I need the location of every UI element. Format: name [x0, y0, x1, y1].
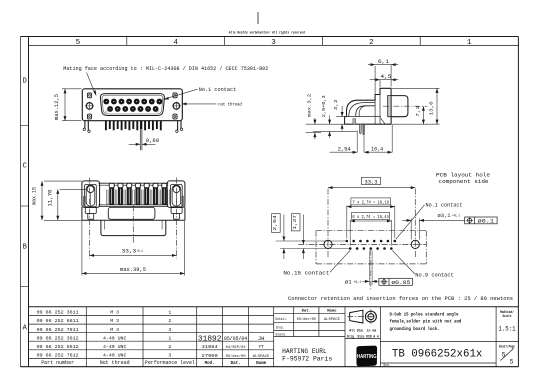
- board lock legs left: [83, 121, 90, 133]
- svg-text:1: 1: [467, 39, 472, 47]
- svg-text:M 3: M 3: [110, 318, 119, 324]
- svg-text:4,5: 4,5: [380, 74, 391, 80]
- company address: [282, 348, 332, 363]
- svg-text:5: 5: [502, 352, 506, 359]
- dimension 11,70: [48, 189, 87, 220]
- dimension units note: [347, 329, 380, 340]
- svg-text:No.1 contact: No.1 contact: [426, 203, 463, 209]
- svg-text:ALSPACE: ALSPACE: [253, 355, 271, 359]
- insulator base (top view): [108, 207, 155, 219]
- D-shell seen from top: [101, 220, 166, 235]
- dimension 1,27 (PCB, boxed): [291, 214, 303, 259]
- contacts top row 1-8: [103, 99, 162, 105]
- dimension max. 15: [32, 181, 82, 220]
- dimension 3,2 (foot height): [333, 99, 342, 131]
- solder pins (side view): [359, 124, 364, 134]
- svg-text:2,54: 2,54: [272, 215, 278, 231]
- dimension 7,3: [415, 106, 423, 125]
- svg-text:M 3: M 3: [110, 310, 119, 316]
- svg-text:7 x 2,74 = 19,18: 7 x 2,74 = 19,18: [353, 199, 390, 205]
- svg-text:Performance level: Performance level: [145, 360, 195, 366]
- svg-text:3,2: 3,2: [333, 99, 339, 110]
- approval sub-table: [276, 310, 341, 338]
- svg-text:2: 2: [369, 39, 374, 47]
- svg-text:09 66 252 6612: 09 66 252 6612: [37, 344, 79, 350]
- title block frame: [29, 307, 518, 367]
- svg-text:1.5:1: 1.5:1: [499, 325, 516, 332]
- svg-text:1: 1: [168, 310, 171, 316]
- position tolerance frame 0.05: [379, 278, 413, 286]
- zone column ticks: [127, 37, 420, 46]
- pin behind foot: [353, 119, 356, 125]
- front view flange: [82, 89, 182, 121]
- svg-text:33,3: 33,3: [365, 180, 378, 186]
- label No.9 contact: [392, 250, 454, 278]
- svg-text:No.9 contact: No.9 contact: [415, 273, 454, 279]
- svg-text:6,1: 6,1: [378, 59, 389, 65]
- revision row 27960: [202, 354, 270, 359]
- svg-text:3: 3: [271, 39, 276, 47]
- dimension 2,9 +0,3: [321, 95, 330, 138]
- svg-text:05/dec/00: 05/dec/00: [226, 354, 247, 359]
- svg-text:7,3: 7,3: [415, 106, 421, 117]
- right extension lines (side view): [392, 88, 440, 124]
- svg-text:C: C: [23, 163, 27, 171]
- fold mark top center: [257, 12, 259, 24]
- svg-text:2: 2: [168, 318, 171, 324]
- mounting hole right: [411, 240, 419, 248]
- board lock legs right: [176, 121, 183, 133]
- svg-text:Insp.: Insp.: [276, 326, 285, 330]
- svg-text:2: 2: [168, 344, 171, 350]
- svg-text:nut thread: nut thread: [218, 102, 242, 108]
- svg-text:05/dec/00: 05/dec/00: [297, 317, 317, 322]
- screw hole right (nut): [172, 102, 181, 111]
- svg-text:F-95972 Paris: F-95972 Paris: [282, 356, 332, 363]
- PCB axis center line: [298, 243, 426, 245]
- mounting hole center lines: [328, 189, 415, 258]
- lock pin left (top view): [85, 208, 96, 220]
- svg-text:max.39,5: max.39,5: [120, 267, 146, 273]
- screw hole left (nut): [85, 102, 94, 111]
- svg-text:component side: component side: [439, 178, 490, 185]
- svg-text:27960: 27960: [202, 354, 218, 359]
- svg-text:ø1: ø1: [345, 280, 352, 286]
- svg-text:5: 5: [76, 39, 81, 47]
- svg-text:Nut thread: Nut thread: [100, 360, 130, 366]
- svg-text:TB 0966252x61x: TB 0966252x61x: [392, 348, 483, 360]
- zone row letters D C B A: [23, 78, 28, 333]
- svg-text:Connector retention and insert: Connector retention and insertion forces…: [288, 296, 513, 302]
- board lock rivet holes (4x): [87, 93, 177, 119]
- connector axis center line: [383, 105, 428, 107]
- svg-text:2,54: 2,54: [338, 146, 351, 152]
- dimension 0,60: [129, 138, 159, 144]
- sheet number field: [499, 344, 515, 365]
- leader mating face: [87, 73, 97, 97]
- revision row 31084: [202, 345, 264, 350]
- svg-text:YT: YT: [258, 345, 264, 350]
- dimension 2,54 (PCB, boxed): [272, 214, 284, 259]
- svg-text:09 66 252 3612: 09 66 252 3612: [37, 335, 79, 341]
- lock pin right (top view): [171, 208, 182, 220]
- svg-text:ALSPACE: ALSPACE: [324, 318, 341, 322]
- side view inner edges: [345, 95, 386, 125]
- svg-text:No.15 contact: No.15 contact: [283, 271, 329, 277]
- contacts bottom row 9-15: [107, 106, 158, 112]
- dimension pin hole dia 1: [345, 251, 379, 286]
- svg-text:33,3: 33,3: [122, 249, 137, 255]
- svg-text:max.12,5: max.12,5: [54, 94, 60, 120]
- scale field: [499, 310, 516, 333]
- label No.1 contact (front view): [163, 87, 237, 99]
- top view body edges: [99, 183, 169, 206]
- dimension 2,54 (side view): [330, 146, 358, 152]
- svg-text:4-40 UNC: 4-40 UNC: [103, 344, 127, 350]
- insulator channel arcs: [349, 103, 375, 117]
- description field: [390, 311, 462, 332]
- svg-text:ø0.1: ø0.1: [478, 218, 495, 224]
- svg-text:Alle Rechte vorbehalten/ All r: Alle Rechte vorbehalten/ All rights rese…: [228, 30, 305, 35]
- svg-text:B: B: [23, 244, 27, 252]
- svg-text:ø3,1: ø3,1: [438, 213, 451, 219]
- zone column numbers 5 4 3 2 1: [76, 39, 472, 47]
- svg-text:Part number: Part number: [41, 360, 74, 366]
- svg-text:HARTING EURL: HARTING EURL: [282, 348, 327, 355]
- svg-text:M 3: M 3: [110, 327, 119, 333]
- svg-text:4-40 UNC: 4-40 UNC: [103, 353, 127, 359]
- svg-text:Mating face according to : MIL: Mating face according to : MIL-C-24308 /…: [63, 66, 268, 72]
- center lines (top view): [90, 178, 177, 259]
- svg-text:31084: 31084: [202, 345, 218, 350]
- top view flange band: [82, 207, 185, 220]
- svg-text:Scale: Scale: [503, 314, 512, 319]
- dimension hole dia 3,1: [402, 213, 464, 240]
- svg-text:Blatt/Page: Blatt/Page: [499, 344, 515, 349]
- svg-text:05/05/04: 05/05/04: [224, 335, 248, 342]
- svg-text:female,solder pin with nut and: female,solder pin with nut and: [390, 319, 462, 325]
- contact number marks 15 and 9: [105, 111, 159, 114]
- dimension max. 12,5 (front view height): [54, 89, 81, 121]
- svg-text:09 66 252 3611: 09 66 252 3611: [37, 310, 79, 316]
- svg-text:Dat.: Dat.: [231, 362, 241, 366]
- svg-text:ø0.05: ø0.05: [391, 280, 410, 286]
- mounting hole left: [324, 240, 332, 248]
- front view D-cutout outer: [100, 94, 164, 116]
- svg-text:D-Sub 15 poles standard angle: D-Sub 15 poles standard angle: [390, 311, 459, 317]
- svg-text:HARTING: HARTING: [357, 354, 377, 360]
- dimension extension lines below side view: [357, 125, 392, 153]
- svg-text:2,9+0,3: 2,9+0,3: [321, 95, 327, 117]
- contact holes bottom row: [349, 247, 393, 250]
- table header row: [41, 360, 266, 366]
- svg-text:0,60: 0,60: [146, 138, 159, 144]
- svg-text:+0,1: +0,1: [452, 214, 460, 218]
- dimension 6,1 (side view): [368, 59, 398, 94]
- svg-text:Name: Name: [327, 310, 337, 314]
- svg-text:09 66 252 6611: 09 66 252 6611: [37, 318, 79, 324]
- svg-text:Mod.: Mod.: [205, 361, 215, 366]
- svg-text:grounding board lock.: grounding board lock.: [390, 326, 440, 332]
- row extension lines (left): [276, 241, 349, 249]
- zone row ticks: [21, 126, 30, 287]
- dimension 4,5 (side view): [370, 74, 399, 87]
- svg-text:4-40 UNC: 4-40 UNC: [103, 335, 127, 341]
- svg-text:max.15: max.15: [32, 187, 38, 205]
- solder pins row (front view): [106, 121, 161, 131]
- dimension 33,3 +0,1 (top view): [90, 249, 177, 256]
- dimension max. 3,2: [307, 94, 315, 140]
- svg-text:5: 5: [510, 359, 514, 366]
- svg-text:13,6: 13,6: [429, 101, 435, 115]
- first angle projection symbol: [347, 309, 378, 324]
- svg-text:+0,1: +0,1: [353, 280, 361, 284]
- solder pin comb (7 channels): [107, 183, 170, 204]
- HARTING logo: [356, 346, 377, 367]
- label No.15 contact: [283, 251, 350, 277]
- svg-text:1: 1: [168, 335, 171, 341]
- svg-text:11,70: 11,70: [48, 190, 54, 207]
- svg-text:Dat.: Dat.: [302, 310, 311, 314]
- label No.1 contact (PCB): [396, 203, 463, 240]
- contact holes top row: [346, 240, 397, 243]
- svg-text:No.1 contact: No.1 contact: [199, 87, 237, 93]
- svg-text:3: 3: [168, 327, 171, 333]
- note: PCB layout hole component side: [436, 171, 491, 184]
- side view body outline: [345, 88, 392, 124]
- svg-text:JH: JH: [258, 335, 265, 342]
- svg-text:max.3,2: max.3,2: [307, 94, 313, 117]
- PCB board outline (dashed): [316, 231, 426, 264]
- svg-text:3: 3: [168, 353, 171, 359]
- label nut thread: [182, 102, 242, 108]
- svg-text:D: D: [23, 78, 27, 86]
- svg-text:+0,1: +0,1: [136, 250, 143, 254]
- dimension 6 x 2,74 = 16,44 (boxed): [350, 212, 391, 245]
- shell collar (side view): [388, 96, 391, 117]
- part number table rows: [37, 310, 172, 359]
- svg-text:6 x 2,74 = 16,44: 6 x 2,74 = 16,44: [352, 214, 389, 220]
- svg-text:Sch.: Sch.: [383, 363, 391, 368]
- svg-text:10,4: 10,4: [371, 146, 383, 152]
- top view right nut post: [167, 181, 185, 208]
- front view D-cutout inner: [102, 95, 163, 114]
- revision row 31892: [198, 335, 265, 343]
- svg-text:Detail.: Detail.: [276, 317, 288, 322]
- center pin detail (0,60): [140, 121, 142, 151]
- dimension max. 39,5 (top view): [82, 221, 185, 276]
- dimension 33,3 (PCB, boxed): [328, 177, 415, 187]
- svg-text:31892: 31892: [198, 335, 222, 343]
- position tolerance frame 0,1: [465, 217, 497, 224]
- shell (side view): [391, 96, 408, 117]
- dimension 10,4 (side view): [364, 146, 392, 152]
- svg-text:4: 4: [173, 39, 178, 47]
- svg-text:Stand.: Stand.: [276, 332, 287, 337]
- dimension 7 x 2,74 = 19,18 (boxed): [347, 198, 395, 238]
- svg-text:09 66 252 7611: 09 66 252 7611: [37, 327, 79, 333]
- svg-text:Orig. Size DIN A 4: Orig. Size DIN A 4: [347, 334, 380, 339]
- sheet frame: [21, 37, 519, 368]
- top view left nut post: [82, 181, 100, 208]
- left extension lines (side view): [306, 117, 357, 133]
- svg-text:1,27: 1,27: [292, 215, 298, 230]
- svg-text:Name: Name: [256, 362, 267, 366]
- svg-text:All Dim. in mm: All Dim. in mm: [349, 329, 377, 334]
- svg-text:04/SEP/02: 04/SEP/02: [226, 345, 247, 350]
- svg-text:09 66 252 7612: 09 66 252 7612: [37, 353, 79, 359]
- dimension 13,6: [429, 88, 437, 124]
- center line through pin pattern: [370, 250, 372, 290]
